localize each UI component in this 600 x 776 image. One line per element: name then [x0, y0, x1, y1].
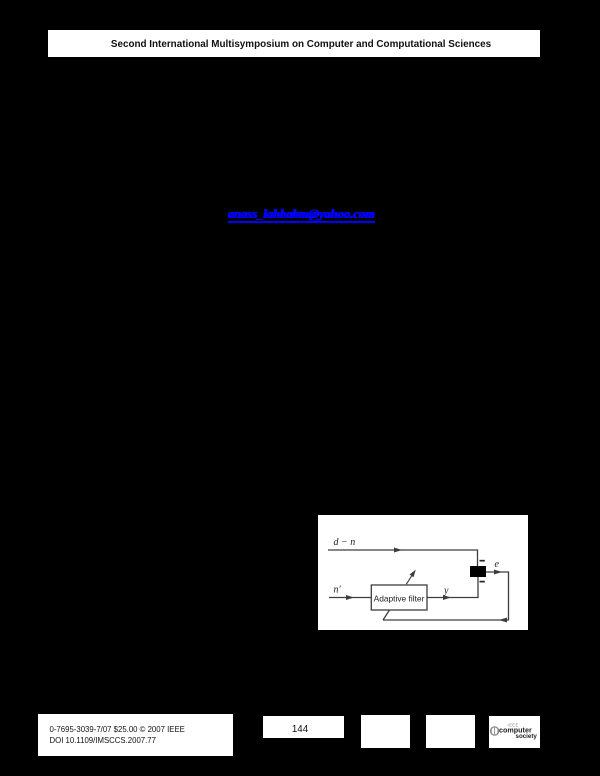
- arrowhead on e line: [494, 570, 502, 575]
- minus below summer: [480, 581, 485, 583]
- svg-text:y: y: [443, 586, 449, 597]
- header banner: [48, 30, 540, 57]
- arrowhead on y line: [443, 595, 451, 600]
- svg-text:Adaptive filter: Adaptive filter: [374, 594, 425, 604]
- adaptive filter box: [371, 585, 427, 610]
- footer page number box: [263, 716, 344, 738]
- arrowhead on d-n line: [394, 548, 402, 553]
- wire input n': [329, 597, 371, 599]
- svg-text:d − n: d − n: [334, 537, 356, 548]
- CS emblem: [491, 727, 499, 735]
- svg-text:n′: n′: [334, 585, 342, 596]
- footer empty box right: [426, 715, 475, 748]
- arrowhead on n' line: [346, 595, 354, 600]
- footer empty box left: [361, 715, 410, 748]
- figure white background: [318, 515, 528, 630]
- wire e output: [383, 572, 509, 620]
- arrowhead on feedback line: [499, 618, 507, 623]
- footer IEEE Computer Society logo box: [489, 716, 540, 748]
- wire below summer to y-line: [427, 577, 478, 598]
- summer block: [470, 566, 486, 577]
- adaptation arrow line: [406, 572, 414, 585]
- svg-text:e: e: [495, 559, 500, 570]
- wire d-n top line: [328, 550, 478, 566]
- email link: [228, 208, 375, 223]
- wire feedback diagonal: [383, 610, 390, 620]
- minus above summer: [480, 560, 485, 562]
- footer copyright box: [38, 714, 233, 756]
- svg-text:society: society: [516, 733, 538, 740]
- figure: adaptive noise cancellation diagram: [318, 515, 528, 630]
- arrowhead on adaptation arrow: [410, 570, 416, 578]
